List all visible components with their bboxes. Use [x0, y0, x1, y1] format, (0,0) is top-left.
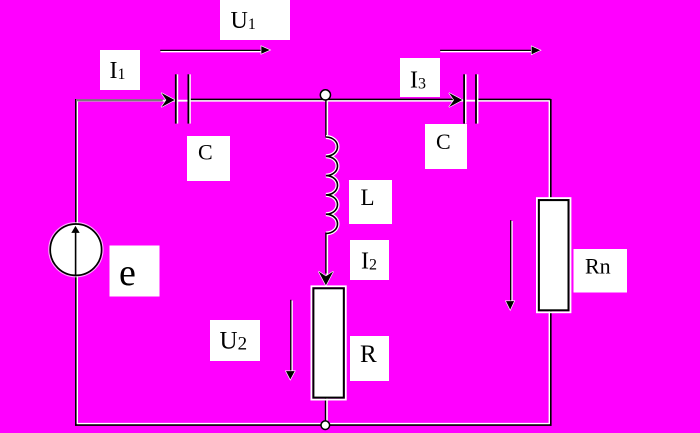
svg-text:C: C [436, 129, 451, 154]
capacitor C1 left plate [175, 74, 177, 123]
wire: right vertical [550, 99, 552, 426]
source e halo ring [49, 223, 103, 277]
wire halo: left inner white [76, 101, 78, 425]
wire: R bottom lead [325, 398, 327, 426]
resistor R body [313, 288, 343, 397]
svg-text:C: C [198, 140, 213, 165]
inductor L coil [326, 137, 338, 234]
arrow U1 halo [161, 51, 262, 53]
label box R [350, 336, 389, 381]
svg-text:R: R [360, 341, 377, 368]
arrow top-right halo [440, 51, 531, 53]
wire: top-right segment [476, 98, 550, 100]
source e arrow shaft [75, 232, 77, 276]
capacitor C1 halo [176, 74, 178, 123]
arrow U2 (down) [290, 300, 292, 372]
label box I1 [100, 50, 140, 90]
svg-text:L: L [361, 185, 375, 210]
arrow top-right [440, 49, 532, 51]
node: top junction [320, 90, 330, 100]
label box C (left) [187, 136, 230, 181]
wire halo: bottom inner white [77, 423, 550, 425]
capacitor C2 halo [465, 74, 467, 123]
capacitor C1 right plate [187, 74, 189, 123]
resistor R halo [311, 286, 345, 399]
arrow Rn current halo [511, 221, 513, 301]
resistor Rn halo [537, 198, 571, 312]
source e circle [50, 224, 101, 275]
wire: middle branch lower (I2) [325, 233, 327, 274]
label box U1 [220, 0, 290, 40]
wire: I1 grey current shaft (top-left) [76, 99, 163, 101]
resistor Rn body [539, 200, 569, 310]
label box I2 [350, 240, 389, 280]
svg-text:e: e [119, 252, 136, 294]
label box e [110, 246, 160, 297]
arrowhead I1 (stealth) [161, 93, 174, 107]
wire halo: middle branch white [326, 101, 328, 138]
source e arrowhead [71, 226, 79, 233]
label box C (right) [425, 124, 467, 169]
wire: middle branch upper [325, 99, 327, 137]
svg-text:Rn: Rn [585, 254, 611, 279]
capacitor C2 right plate [475, 74, 477, 123]
node: bottom junction [321, 421, 330, 430]
wire: bottom horizontal [75, 424, 552, 426]
wire: top middle segment [190, 98, 463, 100]
arrowhead I2 (stealth, down) [319, 272, 334, 286]
arrow U2 halo [291, 301, 293, 372]
arrow Rn current (down) [510, 220, 512, 301]
wire: left vertical branch [75, 99, 77, 426]
label box L [349, 180, 392, 224]
arrow U1 [160, 49, 261, 51]
capacitor C2 left plate [463, 74, 465, 123]
inductor L coil halo [326, 137, 338, 234]
label box I3 [400, 58, 440, 97]
wire halo: top inner white [77, 100, 163, 102]
label box U2 [210, 320, 260, 361]
arrowhead I3 (stealth) [449, 93, 462, 107]
wire halo: right inner white [549, 101, 551, 425]
label box Rn [574, 249, 628, 293]
